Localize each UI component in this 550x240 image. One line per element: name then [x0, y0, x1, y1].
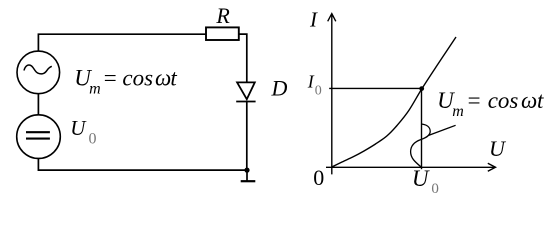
wire bottom from DC source to junction — [38, 158, 246, 170]
input sine waveform on U0 line — [411, 124, 431, 167]
U0 vertical line — [421, 88, 423, 169]
diode characteristic curve — [332, 37, 456, 167]
DC source V2 circle — [17, 115, 61, 159]
svg-text:0: 0 — [313, 165, 324, 190]
svg-text:R: R — [215, 3, 230, 28]
resistor R1 body — [206, 27, 239, 40]
svg-text:I: I — [309, 7, 318, 31]
pointer line to waveform — [428, 125, 455, 135]
AC source V1 circle — [17, 51, 60, 94]
I0 level line — [329, 87, 422, 89]
diode D1 — [236, 82, 255, 101]
wire from resistor to right branch corner — [239, 34, 247, 82]
ground — [241, 170, 256, 181]
junction node — [244, 168, 249, 173]
wire between AC and DC sources — [37, 94, 39, 115]
wire diode to bottom junction — [246, 102, 248, 171]
wire top from AC source to resistor — [38, 34, 206, 51]
operating point dot — [419, 86, 424, 91]
AC source sine symbol — [24, 65, 52, 74]
DC source = symbol — [26, 132, 50, 138]
svg-text:D: D — [271, 76, 288, 101]
U axis (horizontal) — [326, 163, 496, 171]
svg-text:U: U — [489, 136, 507, 161]
I axis (vertical) — [328, 14, 336, 175]
